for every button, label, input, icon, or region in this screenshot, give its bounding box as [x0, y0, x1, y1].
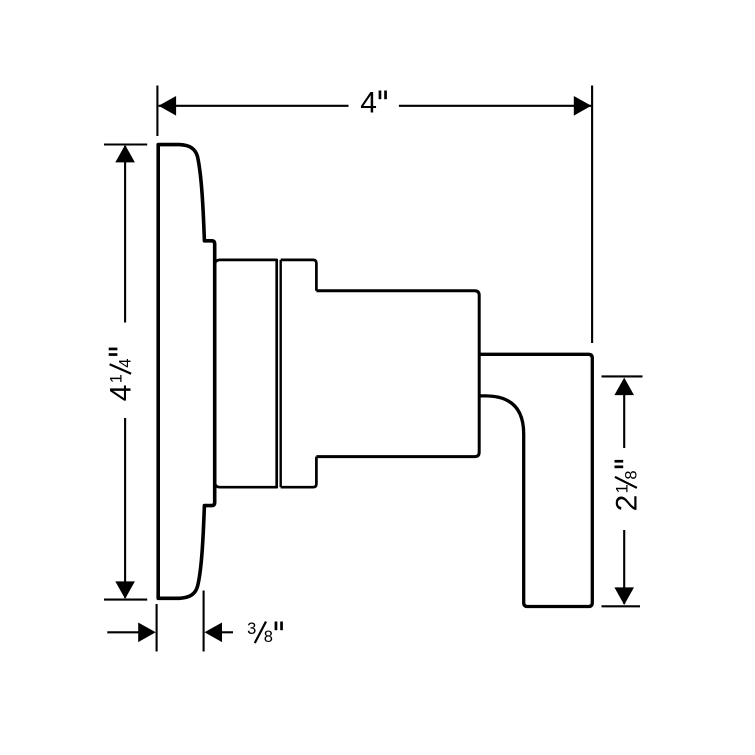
dimension 4 inch: right arrowhead	[574, 96, 592, 116]
valve stem cylinder	[316, 291, 479, 457]
dimension 4-1/4 inch: rotated label	[105, 348, 138, 402]
svg-text:3: 3	[247, 620, 256, 638]
divider line (ring C left edge)	[280, 260, 282, 487]
svg-text:2: 2	[610, 495, 643, 512]
dimension 3/8 inch: left arrowhead	[138, 623, 156, 643]
inner ring B (flange)	[215, 260, 277, 487]
escutcheon plate with step shoulder	[158, 145, 215, 599]
dimension 2-1/8 inch: rotated label	[610, 460, 643, 512]
dimension 4 inch: dimension line	[159, 105, 592, 107]
svg-text:8: 8	[264, 628, 273, 646]
svg-text:1: 1	[108, 374, 126, 383]
dimension 2-1/8 inch: bottom arrowhead	[614, 587, 634, 605]
dimension 4-1/4 inch: dimension line	[124, 146, 126, 598]
svg-text:4: 4	[360, 86, 377, 119]
dimension 3/8 inch: left arrow tail	[107, 631, 140, 633]
dimension 2-1/8 inch: top arrowhead	[614, 378, 634, 396]
dimension 3/8 inch: label	[247, 620, 283, 646]
lever handle	[480, 354, 592, 606]
dimension 3/8 inch: right arrow tail	[221, 631, 233, 633]
dimension 4-1/4 inch: top arrowhead	[115, 145, 135, 163]
svg-text:4: 4	[117, 359, 135, 368]
dimension 4-1/4 inch: bottom tick	[104, 599, 147, 601]
svg-text:8: 8	[622, 470, 640, 479]
dimension 4 inch: extension line right	[591, 86, 593, 344]
dimension 3/8 inch: right arrowhead	[205, 623, 223, 643]
ring C (sleeve) lower	[281, 457, 317, 488]
dimension 2-1/8 inch: top tick	[602, 375, 643, 377]
dimension 4-1/4 inch: bottom arrowhead	[115, 581, 135, 599]
svg-text:4: 4	[105, 385, 138, 402]
dimension 3/8 inch: left extension line	[156, 604, 158, 652]
dimension 3/8 inch: right extension line	[203, 591, 205, 652]
dimension 2-1/8 inch: dimension line	[623, 394, 625, 604]
dimension 4-1/4 inch: top tick	[104, 143, 147, 145]
dimension 4 inch: left arrowhead	[159, 96, 177, 116]
ring C (sleeve) upper	[281, 260, 317, 291]
dimension 2-1/8 inch: bottom tick	[602, 605, 641, 607]
dimension 4 inch: extension line left	[156, 86, 158, 137]
svg-text:1: 1	[613, 484, 631, 493]
dimension 4 inch: label	[360, 86, 387, 119]
